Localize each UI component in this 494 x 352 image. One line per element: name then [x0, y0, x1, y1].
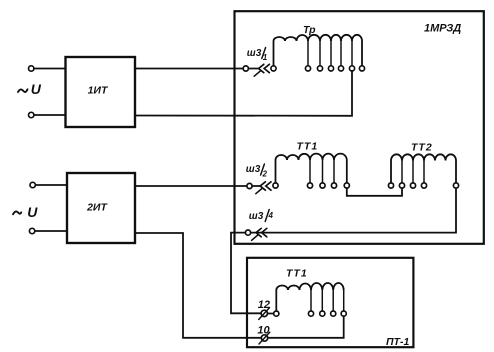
block 1ИТ	[66, 57, 136, 127]
block ПТ-1 outline	[247, 258, 413, 347]
terminal: 2ИТ input top	[30, 182, 35, 187]
wire: ТТ1 to ТТ2 link	[347, 188, 402, 196]
svg-text:ТТ1: ТТ1	[297, 140, 319, 152]
winding Тр tap terminals	[305, 41, 364, 71]
wire: 1ИТ out1 to connector ш3/1	[135, 68, 243, 70]
winding ТТ2 start terminal	[388, 183, 393, 188]
svg-text:1МРЗД: 1МРЗД	[424, 23, 461, 35]
label ТТ1 (1МРЗД)	[297, 140, 319, 152]
winding ТТ1 start terminal	[273, 183, 278, 188]
block 2ИТ	[67, 173, 135, 243]
wire: ТТ2 end down to ш3/4 bus	[251, 188, 456, 233]
wire: 2ИТ input top lead	[35, 184, 67, 186]
svg-text:1: 1	[263, 53, 268, 62]
label 1МРЗД	[424, 23, 461, 35]
winding ТТ2 tap terminals	[399, 161, 458, 189]
wire: 2ИТ out2 to terminal 10	[135, 233, 261, 338]
winding Тр	[274, 35, 363, 66]
label 12	[258, 299, 270, 311]
block 1МРЗД outline	[235, 11, 484, 244]
wire: 2ИТ out1 to connector ш3/2	[135, 185, 247, 187]
terminal: 1ИТ input top	[29, 66, 34, 71]
svg-text:1ИТ: 1ИТ	[88, 84, 109, 96]
winding ТТ2 (1МРЗД)	[391, 154, 456, 183]
connector ш3/1 (plug)	[243, 64, 269, 76]
svg-text:U: U	[31, 81, 42, 97]
terminal: 2ИТ input bottom	[29, 228, 34, 233]
label ТТ2 (1МРЗД)	[411, 142, 433, 154]
label ~U (2ИТ source)	[13, 204, 38, 220]
wire: ш3/4 to terminal 12	[231, 233, 261, 314]
winding ТТ1 (ПТ-1) start terminal	[274, 311, 279, 316]
label ш3/2	[246, 164, 268, 179]
label Тр	[303, 24, 316, 36]
svg-text:ТТ2: ТТ2	[411, 142, 433, 154]
winding Тр start terminal	[271, 66, 276, 71]
svg-text:2ИТ: 2ИТ	[86, 202, 108, 214]
svg-text:10: 10	[257, 325, 270, 337]
label 10	[257, 325, 270, 337]
wire: 1ИТ input top lead	[34, 68, 66, 70]
label 1ИТ	[88, 84, 109, 96]
svg-text:ш3: ш3	[247, 48, 262, 59]
svg-text:ш3: ш3	[249, 211, 264, 222]
svg-text:2: 2	[262, 170, 268, 179]
svg-text:12: 12	[258, 299, 270, 311]
wire: 1ИТ input bottom lead	[34, 114, 66, 116]
wire: ПТ winding end to terminal 10	[268, 316, 344, 338]
wire: 1ИТ out2 to Тр tap	[135, 71, 352, 116]
label ПТ-1	[386, 336, 409, 348]
svg-text:Тр: Тр	[303, 24, 316, 36]
terminal 12 (ПТ-1 pin)	[259, 308, 270, 320]
terminal: 1ИТ input bottom	[29, 112, 34, 117]
winding ТТ1 (ПТ-1) tap terminals	[308, 290, 346, 316]
label 2ИТ	[86, 202, 108, 214]
svg-text:ТТ1: ТТ1	[286, 268, 308, 280]
svg-text:U: U	[27, 204, 38, 220]
connector ш3/2 (plug)	[247, 182, 271, 194]
svg-text:ПТ-1: ПТ-1	[386, 336, 409, 348]
winding ТТ1 tap terminals	[307, 160, 349, 188]
svg-text:4: 4	[268, 211, 274, 220]
label ш3/1	[247, 48, 268, 63]
label ТТ1 (ПТ-1)	[286, 268, 308, 280]
svg-text:ш3: ш3	[246, 164, 261, 175]
label ш3/4	[249, 210, 274, 222]
wire: 2ИТ input bottom lead	[35, 230, 67, 232]
label ~U (1ИТ source)	[18, 81, 42, 97]
winding ТТ1 (1МРЗД)	[276, 154, 347, 183]
wire: terminal 12 to ПТ winding start	[268, 313, 274, 315]
winding ТТ1 (ПТ-1)	[276, 283, 343, 311]
terminal 10 (ПТ-1 pin)	[259, 332, 270, 344]
connector ш3/4 (plug)	[245, 228, 266, 240]
